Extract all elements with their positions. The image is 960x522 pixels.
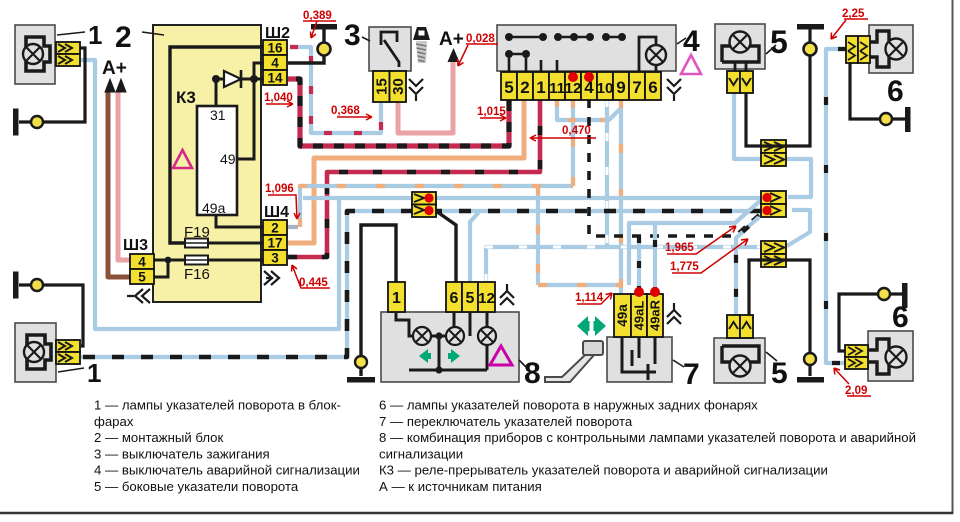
hazard pin cells 5,2,1,11,12,4,10,9,7,6 (501, 72, 661, 100)
item8 green arrow right (448, 349, 460, 363)
triangle hazard switch (681, 55, 701, 74)
ground bar item6-bottom (902, 283, 908, 308)
diode VD (224, 71, 241, 87)
svg-text:4: 4 (683, 25, 700, 58)
svg-text:2,25: 2,25 (842, 8, 865, 20)
turn switch item7 box (607, 337, 672, 382)
svg-text:К3 — реле-прерыватель указател: К3 — реле-прерыватель указателей поворот… (379, 463, 828, 478)
svg-text:F19: F19 (184, 224, 210, 241)
item6-top socket (869, 31, 889, 67)
svg-text:4: 4 (138, 255, 146, 270)
svg-text:3: 3 (271, 251, 279, 266)
side lamp item5-top box (715, 24, 765, 69)
green double arrow item7 (577, 316, 590, 336)
item8 internal wiring (396, 312, 487, 370)
svg-text:4: 4 (271, 56, 279, 71)
svg-text:14: 14 (267, 71, 283, 86)
symbol ground chevrons hazard (667, 79, 681, 101)
item1 bottom connector (56, 340, 80, 364)
svg-text:5: 5 (138, 270, 146, 285)
svg-text:1,096: 1,096 (265, 183, 294, 195)
svg-text:1: 1 (88, 20, 102, 50)
junction dot diode left (212, 75, 220, 83)
arrow A+ middle (448, 48, 460, 62)
item8 lamp left (413, 327, 431, 345)
item6-top bulb (886, 39, 907, 60)
fuse F16 (185, 256, 208, 265)
ground bar item8 (347, 377, 375, 383)
item1 bottom bulb (24, 342, 44, 362)
item6-top connector (846, 36, 870, 63)
LAYER wires light (80, 47, 846, 363)
rear lamp item6-top box (869, 25, 913, 73)
wire plain lightblue to B-upper diag and 49aR (629, 200, 761, 294)
svg-text:49aL: 49aL (632, 301, 647, 331)
wire black item8 cell1 ground loop (361, 225, 396, 376)
item1 top socket (26, 37, 50, 71)
svg-text:5: 5 (466, 290, 475, 307)
item7 internal contacts (622, 337, 656, 380)
LAYER labels (57, 8, 909, 397)
fuse F16 line with Sh3 links (154, 260, 263, 277)
svg-text:5: 5 (771, 357, 788, 390)
connector X1 with red dots (412, 192, 436, 217)
item6-bottom bulb (886, 347, 907, 368)
svg-text:6: 6 (648, 78, 657, 97)
label 8 with pointer (519, 360, 528, 369)
ground junction dot item6-top (880, 113, 892, 125)
ground junction dot top-right (804, 43, 817, 56)
rear lamp item6-bottom box (868, 331, 913, 381)
svg-text:5 — боковые указатели поворота: 5 — боковые указатели поворота (94, 479, 299, 494)
svg-text:5: 5 (770, 24, 788, 60)
wire lightblue-orange pin11 diagonal to pin9 (557, 99, 620, 120)
ground bar item1-top (13, 109, 19, 136)
svg-text:5: 5 (504, 78, 513, 97)
svg-text:1,114: 1,114 (575, 292, 604, 304)
item1 top connector (56, 42, 80, 66)
item8 lamp right (478, 327, 496, 345)
junction dot F16 (165, 257, 172, 264)
symbol ground chevrons ignition (409, 79, 423, 101)
wire red-black Sh4-3 to hazard pin1 (288, 99, 540, 257)
label 7 with pointer (673, 360, 684, 367)
relay K3 box (197, 106, 237, 215)
svg-text:фарах: фарах (94, 414, 134, 429)
wire plain lightblue item1-top loop to X1 and B-upper (80, 60, 761, 329)
item8 lamp mid (446, 327, 464, 345)
frame bottom border (0, 512, 953, 514)
item8 triangle (490, 346, 512, 365)
lamp unit item1 top box (15, 25, 55, 84)
wire black X1 to item8 cell6 (436, 211, 456, 282)
hazard lamp (646, 45, 666, 65)
svg-text:1,965: 1,965 (665, 242, 694, 254)
svg-text:К3: К3 (176, 88, 196, 107)
wire grey stub Sh4-2 (288, 225, 298, 229)
wire lightblue item5top-left to A-lower (734, 93, 761, 159)
hazard lamp bracket (639, 37, 656, 71)
svg-text:0,368: 0,368 (331, 105, 360, 117)
svg-text:31: 31 (210, 107, 226, 123)
wire lightblue-orange pin9 straight down to 49a (619, 99, 623, 294)
wire lightblue-red Sh2-16 to ignition-15 (290, 47, 381, 133)
svg-text:7: 7 (683, 358, 700, 391)
svg-text:A+: A+ (102, 58, 127, 79)
item1 top bulb (23, 44, 43, 64)
triangle hazard montage (173, 150, 192, 168)
frame right border (952, 0, 954, 514)
wire red-black Sh2-14 to hazard pin5 (288, 79, 509, 146)
wire lightblue-orange pin12 branch joining pin9 line (300, 99, 621, 285)
fuse F19 (185, 239, 208, 248)
svg-text:7: 7 (632, 78, 641, 97)
svg-text:А — к источникам питания: А — к источникам питания (379, 479, 542, 494)
junction dot diode right (250, 75, 258, 83)
LAYER components (13, 24, 913, 383)
label 1 top with pointer (57, 32, 85, 35)
svg-text:11: 11 (549, 80, 565, 97)
wire lightblue item6-top to item6-bottom (826, 49, 846, 363)
label 3 with pointer (362, 37, 370, 41)
ignition terminals 15/30 (373, 71, 407, 102)
hazard pin stubs (509, 58, 557, 72)
ground bar top-center (311, 24, 337, 30)
svg-text:2,09: 2,09 (845, 385, 867, 397)
symbol shield item8 (500, 284, 514, 305)
svg-text:30: 30 (390, 78, 407, 95)
svg-text:49aR: 49aR (648, 299, 663, 331)
symbol chevrons-right below Sh4 (264, 271, 279, 285)
symbol shield item7 (667, 303, 681, 324)
svg-text:1: 1 (536, 78, 545, 97)
red dot 49aL (634, 287, 644, 297)
item7 lever knob (583, 341, 603, 355)
hazard contact row1 (509, 36, 622, 39)
item8 cells 1,6,5,12 (388, 282, 495, 312)
svg-text:17: 17 (267, 236, 282, 251)
label 4 with pointer (677, 38, 686, 44)
relay 49a pin to Sh4-2 (216, 215, 263, 227)
svg-text:49: 49 (220, 151, 236, 167)
label 5 top with pointer (766, 45, 776, 54)
svg-text:2: 2 (271, 221, 279, 236)
svg-text:8 — комбинация приборов с конт: 8 — комбинация приборов с контрольными л… (379, 430, 916, 445)
relay K3 diode wire (216, 63, 263, 159)
wire lightblue item8 cell5 feed (470, 212, 479, 282)
wire black Sh2-4 to top ground (288, 29, 324, 63)
connector B with red dots (761, 191, 786, 217)
item6-bottom connector (845, 345, 868, 369)
ground junction dot bottom-right (804, 353, 816, 365)
side lamp item5-bottom box (714, 338, 765, 383)
svg-text:9: 9 (616, 78, 625, 97)
svg-text:1 — лампы указателей поворота: 1 — лампы указателей поворота в блок- (94, 398, 341, 413)
ground junction dot item1-bottom (31, 279, 43, 291)
item7 lever arm (545, 355, 594, 382)
wire lightblue A-lower-right to B-upper-right (786, 159, 811, 197)
ground junction dot item6-bottom (878, 288, 890, 300)
wire lightblue-white pin10 to connector C and item8-12 (486, 99, 761, 282)
svg-text:7 — переключатель указателей п: 7 — переключатель указателей поворота (379, 414, 633, 429)
svg-text:16: 16 (267, 41, 283, 56)
svg-text:0,445: 0,445 (299, 277, 328, 289)
instrument cluster item8 box (381, 312, 519, 382)
fuse F19 line (207, 242, 263, 245)
item5-top connector (727, 71, 753, 93)
item5-bottom connector (727, 315, 753, 338)
ground bar item6-top (905, 107, 911, 132)
wire black overlay through connector A (761, 144, 786, 147)
ground bar top-right (797, 24, 824, 30)
svg-text:сигнализации: сигнализации (379, 446, 463, 461)
svg-text:1: 1 (392, 290, 401, 307)
svg-text:49a: 49a (202, 200, 226, 216)
svg-text:2: 2 (115, 21, 132, 54)
svg-text:2: 2 (520, 78, 529, 97)
svg-text:10: 10 (597, 80, 614, 97)
svg-text:0,028: 0,028 (466, 33, 495, 45)
item5-bottom socket (722, 346, 759, 362)
svg-text:6: 6 (450, 290, 459, 307)
wire black C-lower to item5-bottom (749, 260, 761, 315)
svg-text:1: 1 (87, 358, 101, 388)
montage block inner border to F19 (170, 47, 263, 243)
red dot 49aR (650, 287, 660, 297)
hazard switch box 4 (497, 25, 676, 71)
wire pink A+ to Sh3-4 (118, 92, 131, 260)
A+ arrows left (105, 79, 126, 92)
red dot pin12 (568, 72, 578, 82)
svg-text:2 — монтажный блок: 2 — монтажный блок (94, 430, 224, 445)
svg-text:12: 12 (565, 80, 582, 97)
wire lightblue B-lower-right to C-upper-right (787, 210, 810, 246)
svg-text:6 — лампы указателей поворота: 6 — лампы указателей поворота в наружных… (379, 398, 758, 413)
wire black C-lower-right to bottom ground (786, 260, 810, 376)
svg-text:Ш4: Ш4 (264, 204, 289, 221)
label 2 with pointer (142, 32, 164, 35)
item6-bottom socket (869, 339, 889, 374)
LAYER legend (94, 398, 916, 495)
svg-text:A+: A+ (439, 29, 464, 50)
wire brown A+ to Sh3-5 (108, 92, 131, 277)
svg-text:15: 15 (374, 78, 391, 95)
wire orange Sh4-17 to hazard pin2 (288, 99, 524, 243)
ground bar bottom-right (797, 377, 824, 383)
wire black item1-top to ground (19, 48, 85, 122)
svg-text:49a: 49a (615, 304, 630, 327)
svg-text:8: 8 (524, 357, 541, 390)
connector A zigzag (761, 140, 786, 166)
svg-text:12: 12 (478, 290, 495, 307)
svg-text:3 — выключатель зажигания: 3 — выключатель зажигания (94, 446, 270, 461)
ignition contacts (381, 32, 399, 67)
wire black overlay through connector C (761, 258, 786, 261)
svg-text:1,775: 1,775 (670, 261, 699, 273)
connector Sh3 cells 4/5 (130, 254, 154, 285)
label 5 bottom with pointer (766, 352, 777, 361)
ground junction dot item8 (355, 356, 367, 368)
svg-text:3: 3 (344, 19, 361, 52)
key screw icon (413, 27, 430, 40)
ground junction dot top-center (318, 43, 331, 56)
label 1 bottom with pointer (58, 368, 84, 372)
item1 bottom socket (27, 335, 51, 369)
wire blackdash pin4 to B-lower and 49aL (637, 236, 641, 294)
connector Sh4 cells 2/17/3 (263, 220, 287, 266)
svg-text:F16: F16 (184, 266, 210, 283)
ignition switch box 3 (369, 27, 411, 71)
svg-text:0,389: 0,389 (303, 10, 332, 22)
montage block 2 body (153, 25, 261, 302)
svg-text:6: 6 (892, 301, 909, 334)
wire black item6-top ground (850, 63, 905, 119)
wire lightblue-blackdash B to item5-bottom-left (736, 217, 759, 315)
symbol chevrons-left below Sh3 (127, 289, 150, 303)
wire black item6-bottom ground (839, 294, 902, 351)
svg-text:4 — выключатель аварийной сигн: 4 — выключатель аварийной сигнализации (94, 463, 360, 478)
item5-top socket (722, 46, 759, 62)
svg-text:Ш2: Ш2 (265, 25, 290, 42)
ground junction dot item1-top (31, 116, 43, 128)
item7 cells 49a,49aL,49aR (614, 294, 663, 337)
wire black item1-bottom to ground (19, 285, 83, 346)
item5-bottom bulb (730, 356, 751, 377)
wire lightblue-blackdash B-lower to item1-bottom (81, 211, 761, 357)
lamp unit item1 bottom box (15, 323, 56, 382)
hazard contact row2 (509, 53, 526, 56)
svg-text:0,470: 0,470 (562, 125, 591, 137)
item5-top bulb (730, 32, 751, 53)
item8 green arrow left (419, 349, 431, 363)
svg-text:6: 6 (887, 75, 904, 108)
wire black item5-top ground loop (746, 29, 810, 146)
ground bar item1-bottom (13, 272, 19, 299)
connector Sh2 cells 16/4/14 (263, 40, 287, 86)
wire pink ignition-30 to A+ arrow (398, 62, 453, 133)
svg-text:Ш3: Ш3 (123, 237, 148, 254)
connector C zigzag (761, 241, 786, 267)
red dot pin4 (584, 72, 594, 82)
